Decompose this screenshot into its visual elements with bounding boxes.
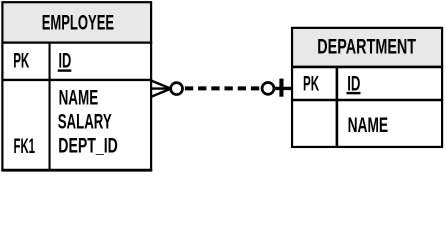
- svg-text:DEPT_ID: DEPT_ID: [58, 135, 118, 158]
- svg-text:ID: ID: [59, 50, 72, 73]
- svg-text:SALARY: SALARY: [58, 111, 112, 134]
- svg-text:DEPARTMENT: DEPARTMENT: [317, 35, 416, 58]
- svg-text:NAME: NAME: [348, 114, 389, 137]
- svg-text:EMPLOYEE: EMPLOYEE: [42, 11, 114, 34]
- svg-text:PK: PK: [303, 72, 319, 95]
- svg-text:FK1: FK1: [14, 135, 36, 158]
- svg-text:NAME: NAME: [59, 86, 99, 109]
- svg-text:PK: PK: [13, 49, 29, 72]
